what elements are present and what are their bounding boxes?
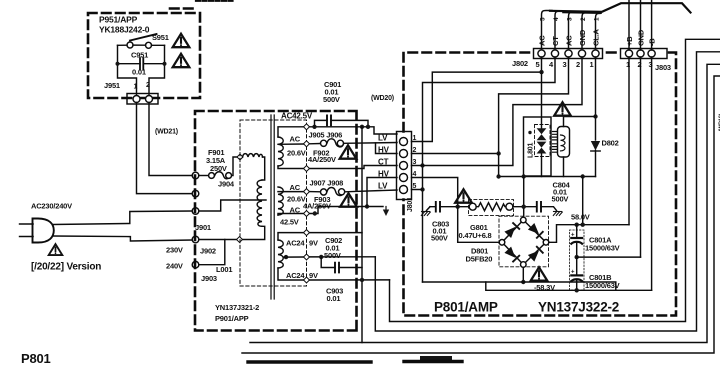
pin J901 [192,208,199,215]
node left of C951 [116,62,120,66]
warning triangle after J906 [340,145,357,158]
svg-text:HV: HV [378,170,390,179]
node CL.A branch [593,114,597,118]
wire J802 pin2 riser [582,13,591,49]
wire L801 right block leg [563,157,565,177]
bridge rectifier D801 [466,216,549,267]
wire J802 pin3 to J801 pin2 [412,57,569,154]
wire AC24.9V bottom loop out [390,39,720,321]
wire to bridge top [523,177,525,221]
svg-text:AC: AC [290,135,301,144]
fuse F901 [243,154,263,157]
node C902 branch [319,255,323,259]
crossing marker tap2 [304,189,310,195]
svg-text:3: 3 [563,60,567,69]
wire J802 pin3 riser [569,12,579,49]
capacitor C801B [571,257,620,290]
wire branch to L801 [541,72,543,128]
surge unit G801 [459,200,514,240]
svg-text:D802: D802 [602,139,619,148]
next section edge right [404,360,462,363]
svg-text:AC24: AC24 [286,239,305,248]
node right of C951 [163,62,167,66]
wire fuse line from J904 mate [199,175,208,177]
svg-text:0.01: 0.01 [327,294,341,303]
wire HV branch to J801 pin4 [367,178,397,207]
wire GND rail [577,256,641,258]
svg-text:AC230/240V: AC230/240V [31,202,72,211]
svg-text:AC: AC [290,183,301,192]
svg-text:J905 J906: J905 J906 [309,131,343,140]
node -B bottom of C801B [575,288,579,292]
node bridge feed [522,174,526,178]
svg-text:L801: L801 [528,143,535,158]
svg-text:9V: 9V [309,271,318,280]
secondary coil W2 [278,187,283,215]
wire J904 to fuse F901 [232,157,237,176]
capacitor C902 [321,236,362,272]
node L801 left leg [496,174,500,178]
next section edge left [248,360,371,363]
capacitor C951 [118,51,165,77]
node GND mid [575,255,579,259]
wire J801 pin4 to AC node [412,178,458,207]
wire W3 top tap [278,233,362,240]
wire J802 pin1 riser [596,13,601,48]
connector J951 [104,81,158,104]
ground left of C803 [421,207,430,216]
svg-text:J902: J902 [200,247,216,256]
wire J802 pin4 riser [555,11,565,48]
wire right leg [149,45,165,95]
pin J902 [192,236,199,243]
svg-text:L001: L001 [216,265,232,274]
svg-text:230V: 230V [166,246,183,255]
wire CT tap [278,166,397,169]
svg-text:500V: 500V [552,195,569,204]
svg-text:J901: J901 [195,223,211,232]
crossing marker W3 mid [304,254,310,260]
svg-text:500V: 500V [323,95,340,104]
capacitor C803 [430,202,469,243]
svg-text:S951: S951 [152,33,169,42]
node -B join [521,280,525,284]
wire J802 pin4 CT down [423,57,556,282]
node W3 mid tap [284,255,288,259]
svg-text:42.5V: 42.5V [280,218,299,227]
relay block L801 [524,117,570,177]
AC plug [20,219,54,243]
svg-text:500V: 500V [431,234,448,243]
node J802 pin5 branch [539,70,543,74]
node +B feed join [581,223,585,227]
next section block [420,356,452,363]
svg-text:P951/APP: P951/APP [99,15,138,25]
wire L801 bottom rail [499,176,596,178]
wire outer loop 2 [242,76,720,353]
wire J903 240V via L001 [199,240,225,265]
cropped dashed border fragment top edge [170,7,196,10]
warning triangle above L801 [554,102,571,115]
wire branch to L801 right [564,117,596,127]
svg-text:D5FB20: D5FB20 [466,255,493,264]
wire J802 pin5 to J801 pin1 [412,57,542,142]
wire 20.8V tap with J905 J906 [278,143,320,146]
crossing marker on inner box edge [237,154,243,160]
connector J801 [397,132,417,213]
diode D802 [591,139,619,177]
crossing marker J902 line [237,237,243,243]
svg-text:1: 1 [594,17,601,21]
module box P901/APP [195,111,357,331]
svg-text:-58.3V: -58.3V [534,283,555,292]
warning triangle by plug [49,244,63,255]
wire W3 bottom tap [278,268,390,280]
svg-text:J803: J803 [655,63,671,72]
vertical bus wire x362 [361,127,363,343]
svg-text:[/20/22] Version: [/20/22] Version [31,262,101,273]
wire J908 to J801 pin5 [345,190,397,192]
svg-text:J904: J904 [218,180,235,189]
svg-text:240V: 240V [166,262,183,271]
svg-text:0.47U+6.8: 0.47U+6.8 [459,231,492,240]
svg-text:J801: J801 [407,197,414,212]
secondary coil W3 [278,240,283,268]
node CT join pin3 wire [420,163,424,167]
wire bridge bottom to -B rail [522,267,524,282]
svg-text:AC42.5V: AC42.5V [281,112,313,121]
module box P951/APP [88,13,200,98]
svg-text:20.6V: 20.6V [287,149,306,158]
wire -B rail [486,282,652,290]
node C901 branch [312,125,316,129]
svg-text:C951: C951 [131,51,148,60]
svg-text:3: 3 [567,17,574,21]
svg-text:YN137J322-2: YN137J322-2 [538,300,619,315]
svg-text:(WD20): (WD20) [371,95,394,102]
wire J802 pin1 CL.A down [595,57,597,140]
svg-text:4: 4 [549,60,554,69]
wire J802 pin5 riser [542,11,553,49]
svg-text:J951: J951 [104,81,120,90]
svg-text:15000/63V: 15000/63V [585,281,620,290]
svg-text:LV: LV [378,182,388,191]
inner dashed box transformer unit [240,120,307,286]
svg-text:5: 5 [536,60,540,69]
pin circle on P901 edge (filter line B) [192,190,199,197]
svg-text:P901/APP: P901/APP [215,314,249,323]
svg-text:2: 2 [580,17,587,21]
node bus join [360,278,364,282]
wire bundle to top right [550,3,691,12]
wire branch to pin2 [376,143,398,154]
node +B top of C801A [575,223,579,227]
wire AC node to bridge left [458,207,500,243]
svg-text:5: 5 [540,17,547,21]
transformer T901 primary coil [257,180,262,226]
crossing marker top tap [304,124,310,130]
wire J951 pin2 down [149,103,192,176]
wire left leg [118,45,137,95]
node pin2 vertical continues [496,151,500,155]
crossing marker W3 top [304,230,310,236]
transformer core [271,115,274,299]
node join pin5 wire [420,187,424,191]
warning triangle lower [173,54,190,67]
wire J803 pins from top edge [629,0,652,50]
wire W3 mid tap [284,256,376,258]
node on 42.5V line [313,211,317,215]
wire J906 to J801 pin1 [344,142,397,145]
wire J803 pin3 -B down [651,57,653,290]
wire bridge right to +B rail [549,225,629,243]
svg-text:HV: HV [378,146,390,155]
wire plug bottom [53,236,193,241]
wire fuse to primary top [262,157,265,180]
svg-text:4: 4 [553,17,560,21]
arrow off-page [385,207,387,212]
capacitor C901 [315,80,369,127]
svg-text:CT: CT [378,158,389,167]
svg-text:9V: 9V [309,239,318,248]
svg-text:1: 1 [590,60,594,69]
pin J903 [192,261,199,268]
svg-text:2: 2 [146,82,150,89]
svg-text:P801: P801 [21,351,51,365]
warning triangle below bridge [531,267,548,280]
node at x368 [366,125,370,129]
secondary coil W1 [278,137,283,166]
svg-text:YN137J321-2: YN137J321-2 [215,303,259,312]
wire J803 pin2 GND down [640,57,642,257]
svg-text:J903: J903 [201,274,217,283]
wire to +B rail [582,177,584,225]
svg-text:4A/250V: 4A/250V [308,155,336,164]
svg-text:2: 2 [576,60,580,69]
svg-text:500V: 500V [324,251,341,260]
warning triangle after J908 [340,193,357,206]
wire J801 pin5 to -B rail [412,190,616,291]
warning triangle on AC leg [455,189,472,202]
wire outer loop 1 [250,64,720,342]
svg-text:P801/AMP: P801/AMP [434,300,498,315]
crossing marker 42.5V bottom [304,211,310,217]
capacitor C804 [537,181,571,216]
wire AC24.9V mid loop out [375,52,720,331]
svg-text:0.01: 0.01 [132,68,146,77]
wire J901 to primary tap [199,200,266,211]
svg-text:1: 1 [134,84,138,91]
wire J951 pin1 down [137,103,193,194]
svg-text:58.0V: 58.0V [571,213,590,222]
svg-text:250V: 250V [210,164,227,173]
wire J803 pin1 +B down [628,57,630,225]
svg-text:LV: LV [378,134,388,143]
warning triangle upper [173,34,190,47]
wire G801 to C804 [513,206,537,208]
svg-text:(WD21): (WD21) [155,129,178,136]
wire plug top [53,211,193,225]
wire x498.6 continues down [498,154,500,177]
connector pair J905 J906 with fuse F902 [308,131,344,165]
switch S951 [127,33,169,48]
svg-text:AC24: AC24 [286,271,305,280]
node bridge top junction [522,205,526,209]
svg-text:J802: J802 [512,59,528,68]
crossing marker CT tap [304,166,310,172]
capacitor C801A [570,225,620,290]
connector pair J904 [209,172,235,189]
cropped text fragment top edge [196,0,233,2]
wire AC42.5V top tap [278,127,397,137]
wire top rail of S951 loop [118,44,165,46]
wire 20.8V tap 2 with J907 J908 [278,191,320,193]
wire J902 230V line [199,226,265,239]
wire J802 pin2 to J801 pin3 [412,57,583,166]
crossing marker 20.8V tap [304,141,310,147]
node at x362 [360,125,364,129]
node HV branch [365,204,369,208]
svg-text:15000/63V: 15000/63V [585,244,620,253]
wire 42.5V bottom tap [278,207,383,216]
connector pair J907 J908 with fuse F903 [303,179,345,211]
connector J803 [621,29,671,72]
crossing marker W3 bottom [304,277,310,283]
node B+ feed [581,174,585,178]
svg-text:YK188J242-0: YK188J242-0 [99,25,150,35]
pin circle on P901 edge (filter line A) [192,172,199,179]
module box P801/AMP border [404,53,677,316]
node AC junction [456,205,460,209]
svg-text:J907 J908: J907 J908 [310,179,344,188]
connector J802 [512,17,603,69]
